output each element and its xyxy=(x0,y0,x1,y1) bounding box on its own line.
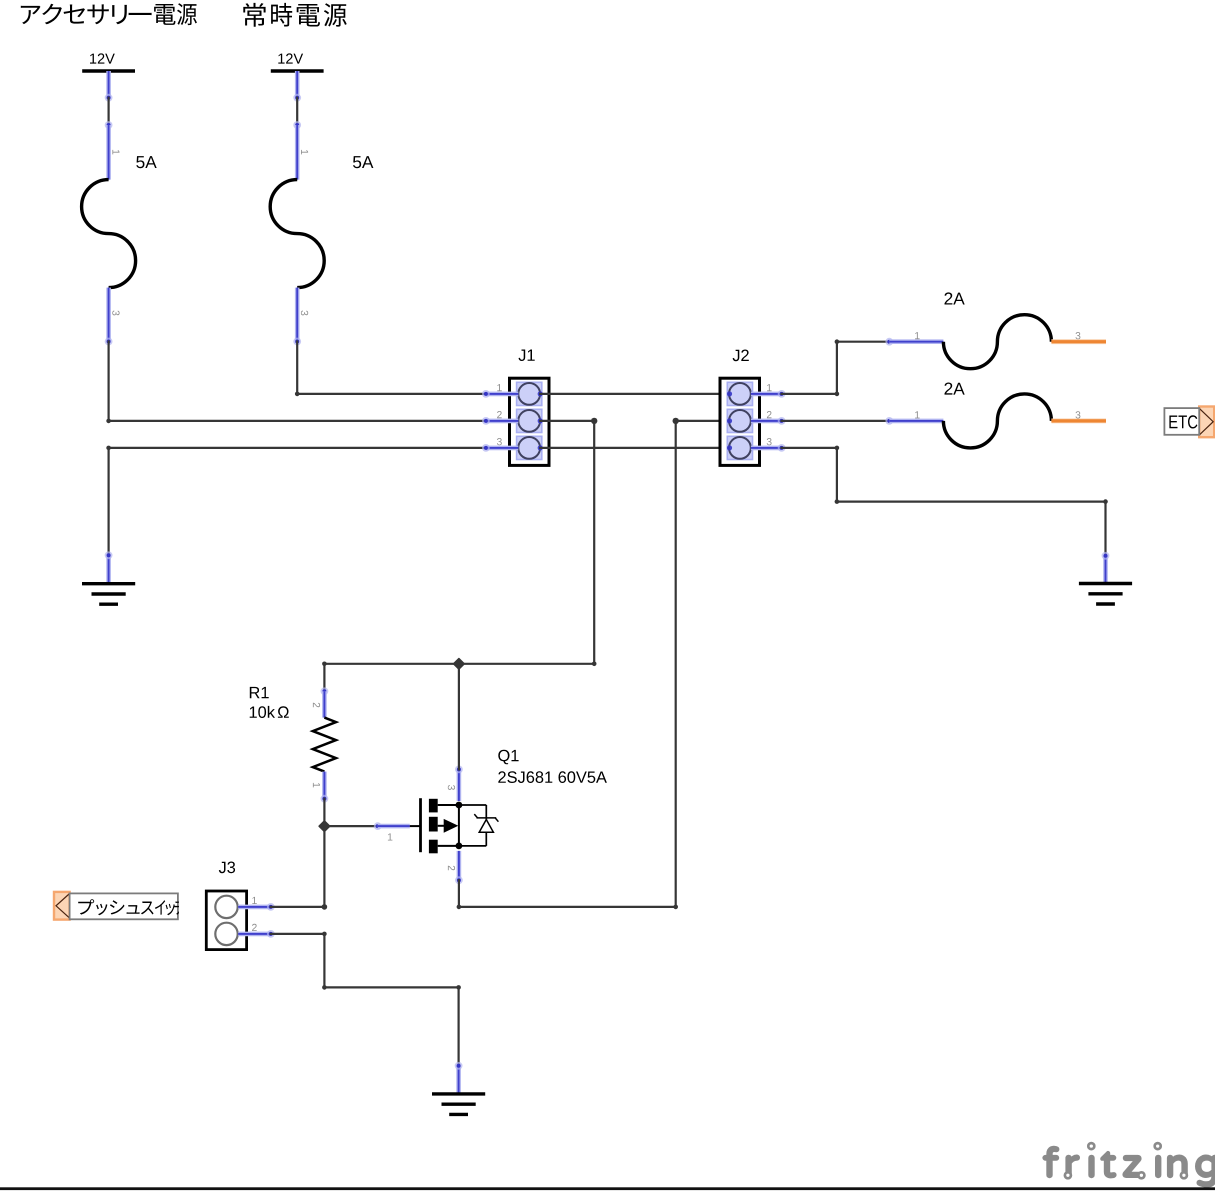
fuse F1 5A (accessory) xyxy=(82,125,157,342)
connector J1 xyxy=(482,350,549,466)
wire J2 pin1 to fuse 2A #1 xyxy=(782,339,890,396)
wire power2-fuse2 xyxy=(293,98,301,129)
net label プッシュスイッチ (push switch) xyxy=(54,892,186,920)
resistor R1 10k xyxy=(250,664,336,803)
connector J2 xyxy=(720,350,785,466)
wire gate rail (J1 pin2 node) xyxy=(322,659,596,670)
fuse F2 5A (constant) xyxy=(270,125,373,342)
wire J1 pin1 to J2 pin1 xyxy=(540,393,730,395)
power symbol +12V (constant) xyxy=(271,53,324,101)
fuse F4 2A (bottom) xyxy=(885,383,1106,448)
wire fuse1 to J1 pin2 xyxy=(105,338,486,424)
wire J1 pin2 down to gate node xyxy=(540,418,597,664)
wire J2 pin2 to fuse 2A #2 xyxy=(782,420,890,422)
wire Q1 pin3 to gate rail node xyxy=(458,664,460,770)
bottom frame line xyxy=(0,1187,1215,1190)
wire R1 bottom to gate junction xyxy=(319,799,378,907)
wire left ground to J1 pin3 xyxy=(106,446,486,556)
wire J1 pin3 to J2 pin3 xyxy=(540,447,730,449)
wire J2 pin2 down to source node xyxy=(673,418,730,907)
wire J3 pin1 to R1/gate branch xyxy=(271,904,327,910)
ground (bottom) xyxy=(432,1062,485,1115)
connector J3 xyxy=(206,862,274,950)
fritzing logo xyxy=(1044,1143,1215,1186)
ground (left) xyxy=(82,551,135,604)
ground (right) xyxy=(1079,552,1132,604)
wire fuse2 to J1 pin1 xyxy=(293,338,486,397)
net label ETC xyxy=(1164,407,1214,438)
net name アクセサリー電源 xyxy=(21,3,197,25)
wire power1-fuse1 xyxy=(105,98,113,129)
wire J3 pin2 to bottom ground xyxy=(271,932,461,1066)
fuse F3 2A (top) xyxy=(885,292,1106,368)
net name 常時電源 xyxy=(243,3,346,27)
transistor Q1 2SJ681 xyxy=(374,750,607,884)
power symbol +12V (accessory) xyxy=(82,53,135,101)
wire Q1 pin2 to J2 pin2 node xyxy=(457,880,678,909)
wire J2 pin3 to right ground xyxy=(782,446,1108,556)
